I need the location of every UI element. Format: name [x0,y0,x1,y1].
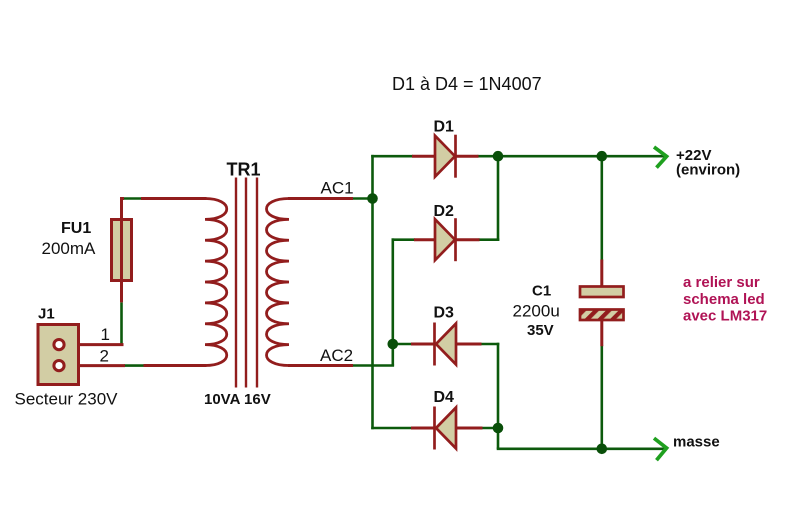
svg-text:200mA: 200mA [42,239,97,258]
svg-text:(environ): (environ) [676,162,740,179]
svg-text:2: 2 [100,347,109,366]
svg-text:D1: D1 [434,119,455,136]
svg-text:1: 1 [101,325,110,344]
svg-text:AC1: AC1 [321,179,354,198]
svg-text:C1: C1 [532,283,551,300]
svg-text:35V: 35V [527,322,554,339]
svg-text:D4: D4 [434,389,455,406]
svg-text:2200u: 2200u [513,302,560,321]
svg-text:masse: masse [673,434,720,451]
svg-text:FU1: FU1 [61,220,91,237]
svg-text:J1: J1 [38,306,55,323]
svg-text:a relier sur: a relier sur [683,274,760,291]
svg-text:10VA 16V: 10VA 16V [204,391,271,408]
svg-text:D3: D3 [434,305,455,322]
svg-text:D1 à D4 = 1N4007: D1 à D4 = 1N4007 [392,74,542,94]
svg-text:Secteur 230V: Secteur 230V [15,390,119,409]
svg-text:AC2: AC2 [320,346,353,365]
svg-text:TR1: TR1 [227,160,261,180]
svg-text:schema led: schema led [683,291,765,308]
svg-text:D2: D2 [434,203,455,220]
svg-text:avec LM317: avec LM317 [683,308,767,325]
